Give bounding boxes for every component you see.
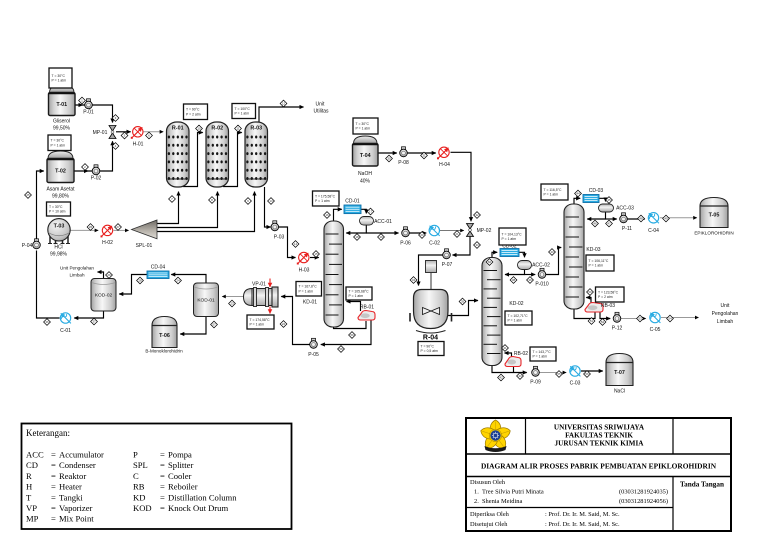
- cooler C-02: [429, 225, 440, 246]
- title block: [466, 418, 731, 531]
- svg-text:46: 46: [593, 222, 597, 226]
- svg-text:Disetujui Oleh: Disetujui Oleh: [470, 521, 508, 528]
- svg-text:T: T: [26, 492, 32, 502]
- wire CD-03 to ACC-03: [599, 198, 606, 201]
- svg-text:Reaktor: Reaktor: [59, 471, 86, 481]
- cond box R-01: [184, 104, 208, 120]
- accumulator ACC-02: [518, 261, 551, 270]
- reboiler RB-03: [585, 303, 615, 313]
- svg-text:P = 1 atm: P = 1 atm: [356, 127, 371, 131]
- svg-text:=: =: [51, 503, 56, 513]
- svg-text:P-03: P-03: [274, 235, 285, 241]
- svg-text:RB: RB: [133, 482, 145, 492]
- svg-text:P-06: P-06: [400, 241, 411, 247]
- mix point MP-01: [93, 126, 116, 139]
- mix point MP-02: [467, 224, 492, 237]
- svg-text:=: =: [160, 482, 165, 492]
- svg-text:RB-01: RB-01: [360, 305, 374, 311]
- node stream 47: [606, 220, 613, 227]
- svg-text:P-05: P-05: [308, 352, 319, 358]
- svg-text:Vaporizer: Vaporizer: [59, 503, 93, 513]
- svg-text:SPL: SPL: [133, 460, 148, 470]
- svg-text:31: 31: [422, 154, 426, 158]
- svg-text:41: 41: [503, 346, 507, 350]
- svg-text:P-08: P-08: [398, 160, 409, 166]
- node stream 56: [584, 371, 591, 378]
- cooler C-05: [650, 312, 661, 333]
- wire KD-02 top to CD-02: [492, 252, 497, 258]
- wire MP-01 to H-01: [116, 131, 131, 133]
- node stream 37: [91, 318, 98, 325]
- node stream 1: [79, 97, 86, 104]
- wire T-01 to P-01 to MP-01: [75, 105, 113, 123]
- svg-text:Cooler: Cooler: [168, 471, 192, 481]
- node stream 28: [137, 277, 144, 284]
- node stream 35: [459, 298, 466, 305]
- svg-text:49: 49: [664, 217, 668, 221]
- svg-text:: Prof. Dr. Ir. M. Said, M. Sc: : Prof. Dr. Ir. M. Said, M. Sc.: [545, 511, 620, 518]
- wire KD-01 top to CD-01: [334, 209, 342, 222]
- svg-text:T-05: T-05: [709, 213, 720, 219]
- node stream 22: [280, 321, 287, 328]
- node stream 36: [44, 319, 51, 326]
- node stream 13: [268, 198, 275, 205]
- svg-text:T-03: T-03: [54, 224, 65, 230]
- svg-text:38: 38: [512, 278, 516, 282]
- svg-text:T-06: T-06: [159, 333, 170, 339]
- node stream 18: [354, 234, 361, 241]
- svg-text:RB-03: RB-03: [601, 303, 615, 309]
- tank T-06: [145, 317, 183, 354]
- node stream 30: [386, 155, 393, 162]
- node stream 31: [421, 152, 428, 159]
- svg-text:23: 23: [230, 302, 234, 306]
- svg-text:H-02: H-02: [102, 240, 113, 246]
- wire SPL-01 branch to R-03 bottom: [157, 192, 255, 232]
- svg-text:KD: KD: [133, 492, 145, 502]
- pump P-04: [22, 239, 41, 249]
- condenser CD-03: [583, 188, 603, 203]
- svg-text:16: 16: [325, 213, 329, 217]
- svg-text:: Prof. Dr. Ir. M. Said, M. Sc: : Prof. Dr. Ir. M. Said, M. Sc.: [545, 521, 620, 528]
- cond box KD-01 right: [346, 287, 372, 300]
- tank T-01: [49, 85, 76, 132]
- svg-text:T = 30°C: T = 30°C: [52, 74, 66, 78]
- condenser CD-04: [147, 265, 169, 279]
- tank T-07: [606, 354, 633, 395]
- svg-text:T = 30°C: T = 30°C: [49, 205, 63, 209]
- sphere tank T-03: [48, 219, 70, 258]
- wire ACC-03 to P-11 to C-04: [606, 218, 645, 220]
- svg-text:T = 30°C: T = 30°C: [51, 139, 65, 143]
- svg-text:Distillation Column: Distillation Column: [168, 492, 237, 502]
- node stream 51: [588, 318, 595, 325]
- svg-text:Condenser: Condenser: [59, 460, 96, 470]
- svg-text:KD-02: KD-02: [509, 301, 523, 307]
- svg-text:33: 33: [475, 243, 479, 247]
- cond box KD-03 right: [586, 255, 614, 271]
- svg-text:R-01: R-01: [172, 126, 184, 132]
- node stream 23: [229, 300, 236, 307]
- svg-text:ACC: ACC: [26, 450, 44, 460]
- svg-text:Unit Pengolahan: Unit Pengolahan: [60, 266, 94, 271]
- wire SPL-01 branch to R-02 bottom: [157, 192, 218, 228]
- cond box T-03: [47, 202, 71, 216]
- svg-text:KOD-01: KOD-01: [197, 297, 215, 303]
- pump P-11: [620, 213, 633, 232]
- node stream 39: [527, 277, 534, 284]
- wire T-04 to P-08 to H-04: [378, 152, 436, 154]
- heater H-01: [131, 127, 144, 148]
- wire H-02 to SPL-01: [114, 229, 129, 231]
- svg-text:H-03: H-03: [299, 268, 310, 274]
- svg-text:=: =: [160, 471, 165, 481]
- svg-text:P = 1 atm: P = 1 atm: [299, 289, 314, 293]
- column KD-03: [564, 204, 601, 309]
- svg-text:Tangki: Tangki: [59, 492, 83, 502]
- node stream 10: [196, 125, 203, 132]
- column KD-02: [482, 258, 524, 366]
- node stream 11: [235, 125, 242, 132]
- svg-text:13: 13: [269, 199, 273, 203]
- svg-text:T = 102,71°C: T = 102,71°C: [508, 314, 529, 318]
- wire ACC-01 reflux to KD-01: [346, 225, 366, 233]
- wire H-01 to R-01: [144, 131, 164, 133]
- node stream 45: [606, 197, 613, 204]
- svg-text:52: 52: [601, 320, 605, 324]
- svg-text:R: R: [26, 471, 32, 481]
- wire C-01 to P-04 recycle to T-02: [37, 171, 60, 318]
- svg-text:P = 1 atm: P = 1 atm: [533, 355, 548, 359]
- svg-text:MP-01: MP-01: [93, 130, 108, 136]
- svg-text:10: 10: [197, 127, 201, 131]
- svg-text:KOD: KOD: [133, 503, 152, 513]
- svg-text:NaCl: NaCl: [614, 389, 625, 395]
- node stream 53: [637, 315, 644, 322]
- node stream 46: [592, 220, 599, 227]
- condenser CD-01: [344, 199, 361, 214]
- svg-text:28: 28: [138, 279, 142, 283]
- svg-text:58: 58: [339, 347, 343, 351]
- node stream 15: [313, 251, 320, 258]
- svg-text:VP: VP: [26, 503, 37, 513]
- svg-text:Accumulator: Accumulator: [59, 450, 104, 460]
- svg-text:P-09: P-09: [530, 380, 541, 386]
- svg-text:Pompa: Pompa: [168, 450, 192, 460]
- svg-text:VP-01: VP-01: [252, 282, 266, 288]
- wire RB-01 vapor to KD-01: [347, 302, 361, 312]
- node stream 48: [638, 215, 645, 222]
- wire KOD-02 bottoms to C-01: [74, 311, 103, 319]
- svg-text:1. Tree Silvia Putri Minata: 1. Tree Silvia Putri Minata: [474, 489, 544, 496]
- pump P-08: [398, 147, 409, 166]
- svg-text:CD: CD: [26, 460, 38, 470]
- svg-text:P = 1 atm: P = 1 atm: [349, 294, 364, 298]
- svg-text:T = 106,11°C: T = 106,11°C: [589, 259, 609, 263]
- svg-text:53: 53: [638, 317, 642, 321]
- svg-text:T-01: T-01: [56, 102, 67, 108]
- wire P-09 to C-03: [536, 372, 567, 374]
- node stream 9: [245, 198, 252, 205]
- wire KOD-01 top to CD-04: [171, 275, 206, 285]
- wire KOD-01 bottoms to T-06: [180, 317, 206, 335]
- svg-text:P = 1 atm: P = 1 atm: [508, 319, 523, 323]
- svg-text:47: 47: [607, 222, 611, 226]
- svg-text:56: 56: [585, 372, 589, 376]
- wire R-02 to R-03: [223, 133, 242, 187]
- accumulator ACC-01: [360, 217, 393, 226]
- svg-text:P = 2 atm: P = 2 atm: [186, 112, 201, 116]
- svg-text:RB-02: RB-02: [514, 351, 528, 357]
- reboiler RB-01: [358, 305, 375, 321]
- node stream 40: [549, 249, 556, 256]
- svg-text:Heater: Heater: [59, 482, 82, 492]
- cond box T-02: [48, 135, 71, 151]
- svg-text:CD-01: CD-01: [345, 199, 360, 205]
- wire C-04 to T-05: [660, 217, 697, 219]
- svg-text:P = 10 atm: P = 10 atm: [49, 210, 66, 214]
- node stream 32: [474, 212, 481, 219]
- wire ACC-01 to P-06 to C-02: [366, 232, 426, 234]
- svg-text:29: 29: [107, 273, 111, 277]
- svg-text:32: 32: [475, 213, 479, 217]
- svg-text:P-12: P-12: [612, 326, 623, 332]
- column KD-01: [303, 221, 344, 327]
- svg-text:(03031281924056): (03031281924056): [619, 498, 668, 505]
- wire T-03 to H-02: [71, 229, 99, 231]
- svg-text:Unit: Unit: [721, 303, 731, 309]
- svg-text:CD-04: CD-04: [151, 265, 166, 271]
- cond box KD-03 top: [541, 184, 568, 200]
- node stream 50: [587, 289, 594, 296]
- heater H-04: [437, 147, 450, 168]
- svg-text:FAKULTAS TEKNIK: FAKULTAS TEKNIK: [565, 432, 633, 440]
- wire KD-03 top to CD-03: [574, 198, 580, 205]
- wire RB-01 to P-05: [321, 321, 371, 345]
- node stream 42: [498, 374, 505, 381]
- svg-text:Mix Point: Mix Point: [59, 514, 94, 524]
- cooler C-04: [648, 213, 659, 234]
- cond box KD-01 left: [296, 282, 322, 297]
- svg-text:=: =: [51, 460, 56, 470]
- wire P-05 to VP-01: [281, 297, 313, 345]
- logo Universitas Sriwijaya: [479, 420, 512, 452]
- svg-text:Utilitas: Utilitas: [313, 109, 329, 115]
- svg-text:ACC-02: ACC-02: [532, 263, 550, 269]
- svg-text:99,50%: 99,50%: [53, 126, 71, 132]
- svg-text:C: C: [133, 471, 139, 481]
- svg-text:CD-03: CD-03: [589, 188, 604, 194]
- node stream 6: [146, 132, 153, 139]
- pump P-07: [442, 249, 453, 268]
- svg-text:37: 37: [92, 320, 96, 324]
- svg-text:T = 123,58°C: T = 123,58°C: [598, 290, 619, 294]
- reboiler RB-02: [505, 351, 528, 367]
- svg-text:T-07: T-07: [614, 370, 625, 376]
- pump P-12: [612, 312, 623, 331]
- svg-text:P: P: [133, 450, 138, 460]
- wire R-03 bottoms to P-03 to H-03 to KD-01: [265, 187, 319, 258]
- node stream 2: [82, 164, 89, 171]
- node stream 58: [338, 346, 345, 353]
- svg-text:Pengolahan: Pengolahan: [712, 311, 739, 317]
- pump P-01: [83, 99, 94, 116]
- svg-text:21: 21: [455, 232, 459, 236]
- wire KD-02 bottoms to P-09: [492, 365, 527, 373]
- svg-text:MP: MP: [26, 514, 39, 524]
- node stream 8: [209, 197, 216, 204]
- svg-text:H-04: H-04: [439, 162, 450, 168]
- condenser CD-02: [500, 244, 519, 257]
- svg-text:P-11: P-11: [622, 226, 632, 232]
- svg-text:C-02: C-02: [429, 241, 440, 247]
- node stream 33: [474, 242, 481, 249]
- svg-text:=: =: [51, 492, 56, 502]
- svg-text:C-03: C-03: [570, 381, 581, 387]
- svg-text:24: 24: [176, 279, 180, 283]
- svg-text:50: 50: [588, 290, 592, 294]
- svg-text:39: 39: [528, 278, 532, 282]
- reactor R-03: [245, 122, 268, 187]
- wire CD-04 to KOD-02: [119, 275, 147, 295]
- svg-text:Diperiksa Oleh: Diperiksa Oleh: [470, 511, 510, 518]
- svg-text:T = 105,68°C: T = 105,68°C: [349, 289, 370, 293]
- svg-text:P-04: P-04: [22, 243, 33, 249]
- svg-text:T = 175,58°C: T = 175,58°C: [315, 194, 336, 198]
- svg-text:57: 57: [212, 323, 216, 327]
- pump P-02: [91, 165, 102, 182]
- wire R-04 to KD-02: [448, 301, 478, 316]
- svg-text:99,98%: 99,98%: [50, 252, 68, 258]
- wire MP-02 to P-07 to R-04: [419, 237, 471, 286]
- wire T-02 to P-02 to MP-01: [74, 141, 113, 171]
- pump P-010: [535, 268, 549, 287]
- svg-text:UNIVERSITAS SRIWIJAYA: UNIVERSITAS SRIWIJAYA: [554, 424, 645, 432]
- wire ACC-02 to P-010 to KD-03: [525, 248, 562, 275]
- svg-text:T = 100°C: T = 100°C: [235, 107, 251, 111]
- node stream 57: [211, 321, 218, 328]
- svg-text:11: 11: [236, 127, 239, 131]
- reactor R-02: [206, 122, 229, 187]
- svg-text:15: 15: [314, 252, 318, 256]
- svg-text:14: 14: [294, 242, 298, 246]
- svg-text:KD-03: KD-03: [586, 247, 600, 253]
- node stream 49: [663, 215, 670, 222]
- node stream 7: [169, 196, 176, 203]
- svg-text:R-02: R-02: [211, 126, 223, 132]
- wire H-04 to MP-02: [451, 152, 472, 221]
- node stream 52: [599, 319, 606, 326]
- svg-text:P = 1 atm: P = 1 atm: [544, 193, 559, 197]
- svg-text:44: 44: [576, 192, 580, 196]
- reactor R-01: [167, 122, 190, 187]
- node stream 43: [517, 373, 524, 380]
- node stream 21: [454, 231, 461, 238]
- svg-text:Gliserol: Gliserol: [53, 119, 70, 125]
- heater H-02: [101, 225, 114, 246]
- node stream 34: [410, 277, 417, 284]
- svg-text:Asam Asetat: Asam Asetat: [46, 187, 75, 193]
- svg-text:EPIKLOROHIDRIN: EPIKLOROHIDRIN: [694, 231, 733, 236]
- svg-text:P-02: P-02: [91, 176, 102, 182]
- cooler C-03: [570, 366, 581, 387]
- node stream 5: [121, 132, 128, 139]
- node stream 25: [25, 192, 32, 199]
- svg-text:51: 51: [590, 319, 594, 323]
- svg-text:P = 1 atm: P = 1 atm: [235, 112, 250, 116]
- cond box KD-02 mid: [505, 311, 532, 325]
- svg-text:P = 1 atm: P = 1 atm: [589, 264, 604, 268]
- svg-text:60: 60: [488, 260, 492, 264]
- svg-text:ACC-03: ACC-03: [616, 206, 634, 212]
- node stream 59: [349, 332, 356, 339]
- svg-text:45: 45: [607, 198, 611, 202]
- svg-text:30: 30: [387, 157, 391, 161]
- svg-text:40%: 40%: [360, 179, 371, 185]
- svg-text:KD-01: KD-01: [303, 300, 317, 306]
- svg-text:C-04: C-04: [648, 228, 659, 234]
- svg-text:48: 48: [639, 217, 643, 221]
- svg-text:40: 40: [550, 250, 554, 254]
- wire CD-01 to ACC-01: [361, 209, 366, 213]
- svg-text:Unit: Unit: [316, 102, 326, 108]
- wire KD-03 bottoms to RB-03: [574, 309, 595, 319]
- wire RB-03 vapor to KD-03: [586, 298, 591, 304]
- svg-text:P = 1 atm: P = 1 atm: [502, 237, 517, 241]
- svg-text:2. Shenia Meidina: 2. Shenia Meidina: [474, 498, 522, 505]
- svg-text:20: 20: [420, 233, 424, 237]
- wire R-01 to R-02: [183, 133, 203, 187]
- node stream 3: [112, 115, 119, 122]
- svg-text:DIAGRAM ALIR PROSES PABRIK PEM: DIAGRAM ALIR PROSES PABRIK PEMBUATAN EPI…: [481, 462, 717, 471]
- svg-text:42: 42: [499, 376, 503, 380]
- cond box KD-02 top: [499, 228, 526, 245]
- svg-text:Limbah: Limbah: [717, 319, 734, 325]
- knock out drum KOD-01: [194, 283, 219, 317]
- svg-text:=: =: [160, 503, 165, 513]
- svg-text:MP-02: MP-02: [477, 228, 492, 234]
- svg-text:18: 18: [355, 235, 359, 239]
- node stream 41: [502, 345, 509, 352]
- svg-text:=: =: [51, 514, 56, 524]
- node stream 12: [280, 100, 287, 107]
- svg-text:T = 116,5°C: T = 116,5°C: [544, 188, 562, 192]
- reactor R-04: [410, 261, 452, 342]
- svg-text:T = 174,58°C: T = 174,58°C: [250, 318, 271, 322]
- pump P-09: [530, 366, 541, 385]
- svg-text:12: 12: [282, 102, 286, 106]
- node stream 55: [556, 371, 563, 378]
- svg-text:KOD-02: KOD-02: [95, 292, 113, 298]
- svg-text:T = 167,8°C: T = 167,8°C: [299, 285, 318, 289]
- svg-text:T = 90°C: T = 90°C: [186, 108, 200, 112]
- svg-text:Knock Out Drum: Knock Out Drum: [168, 503, 228, 513]
- svg-text:HCl: HCl: [54, 245, 62, 251]
- node stream 27: [115, 224, 122, 231]
- svg-text:C-01: C-01: [60, 328, 71, 334]
- cond box R-04: [418, 342, 444, 356]
- svg-text:Splitter: Splitter: [168, 460, 193, 470]
- tank T-05: [694, 198, 733, 236]
- tank T-02: [46, 151, 75, 200]
- wire ACC-03 reflux to KD-03: [587, 212, 605, 219]
- pump P-06: [400, 227, 411, 247]
- svg-text:Limbah: Limbah: [69, 273, 85, 278]
- svg-text:T = 90°C: T = 90°C: [421, 344, 435, 348]
- svg-text:H-01: H-01: [133, 142, 144, 148]
- svg-text:=: =: [51, 471, 56, 481]
- svg-text:R-04: R-04: [423, 335, 438, 342]
